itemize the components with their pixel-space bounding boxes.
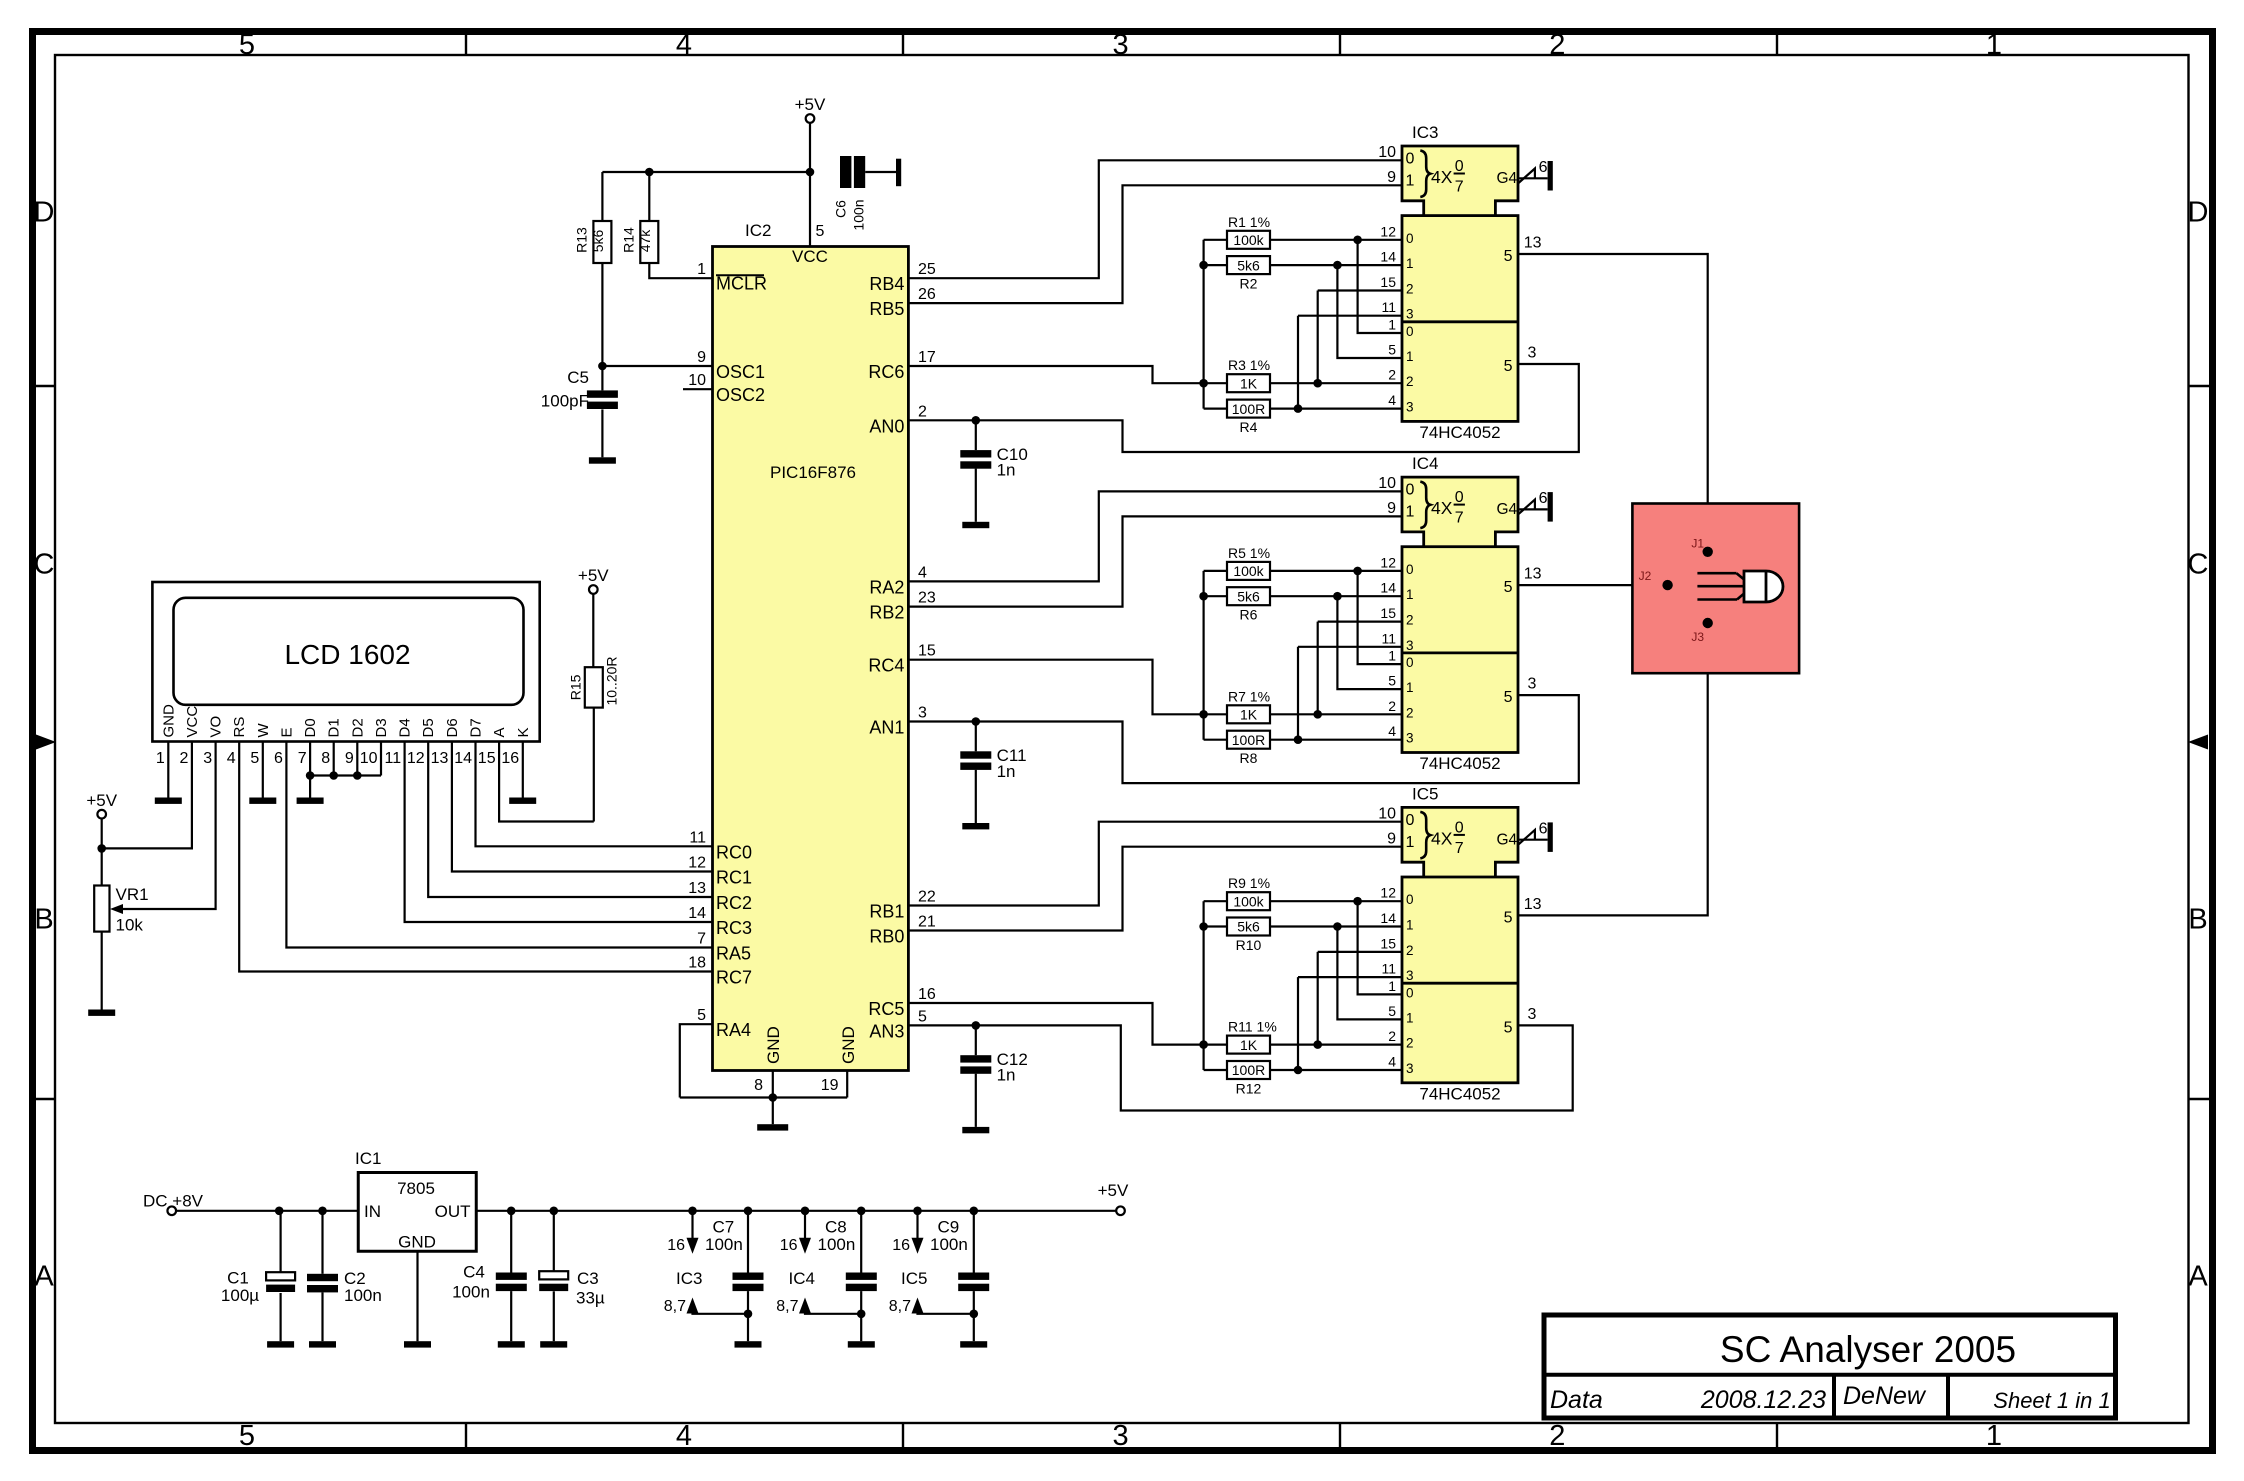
svg-text:OSC1: OSC1 (716, 362, 765, 382)
wire DC+8V to IC1 IN (176, 1210, 358, 1212)
wire C4 bottom (510, 1291, 512, 1341)
svg-text:2: 2 (1406, 1036, 1414, 1051)
svg-text:100n: 100n (850, 199, 866, 230)
svg-text:9: 9 (345, 750, 354, 767)
svg-text:0: 0 (1406, 985, 1414, 1000)
IC2 pin AN3 (5) (869, 1008, 927, 1041)
ground C2 (309, 1341, 336, 1347)
capacitor C10 plates (960, 450, 991, 469)
wire IC3 ch3a stub (1298, 315, 1402, 317)
wire VR1 bottom to ground (101, 932, 103, 1010)
svg-text:18: 18 (688, 955, 706, 972)
wire LCD pin2 VCC to +5V (102, 742, 192, 849)
IC2 pin OSC1 (9) (697, 349, 765, 382)
svg-text:16: 16 (667, 1237, 685, 1254)
svg-text:E: E (278, 727, 295, 737)
svg-text:2: 2 (1388, 1028, 1396, 1044)
ground VR1 (88, 1010, 115, 1016)
wire C5 to ground (601, 409, 603, 457)
junction R11 bus node (1199, 1040, 1208, 1049)
wire IC4 pin16 stub (804, 1211, 806, 1239)
svg-text:DeNew: DeNew (1843, 1382, 1927, 1410)
svg-text:C: C (34, 549, 55, 581)
wire IC5 8,7 to C9 (918, 1313, 974, 1314)
ground C6 (rotated bar) (896, 159, 901, 187)
svg-text:15: 15 (1380, 935, 1396, 951)
svg-text:0: 0 (1455, 819, 1464, 836)
ground C8 (848, 1341, 875, 1347)
wire RC6 to R3 bus (908, 366, 1203, 383)
wire R9 to IC5 ch0 (1270, 900, 1402, 902)
IC2 pin RB1 (22) (869, 889, 936, 922)
arrow from pins 8,7 of IC5 (912, 1298, 924, 1314)
svg-text:1: 1 (1986, 1420, 2002, 1452)
LCD display LCD1602 (152, 582, 539, 742)
frame tick bottom x=903 (902, 1423, 904, 1449)
junction C3 node (550, 1207, 559, 1216)
svg-text:14: 14 (454, 750, 472, 767)
svg-text:10..20R: 10..20R (604, 656, 620, 705)
IC4 channel 2 pin 2 (1388, 698, 1413, 721)
frame tick top x=903 (902, 33, 904, 55)
svg-text:C9: C9 (938, 1218, 960, 1237)
svg-text:C: C (2188, 549, 2209, 581)
svg-text:9: 9 (1387, 169, 1396, 186)
wire LCD pin4 RS to RC7 (239, 742, 712, 972)
IC4 channel 0 pin 12 (1380, 554, 1413, 577)
svg-text:7: 7 (1455, 840, 1464, 857)
capacitor C3 plates (electrolytic) (539, 1271, 568, 1291)
power +5V (IC2 VCC) (795, 95, 826, 123)
wire IC2 GND19 stub (846, 1071, 848, 1098)
svg-text:10: 10 (360, 750, 378, 767)
wire LCD pin5 W GND (262, 742, 264, 798)
svg-text:G4: G4 (1497, 170, 1518, 187)
svg-text:5: 5 (1504, 909, 1513, 926)
svg-text:RB2: RB2 (869, 603, 904, 623)
wire LCD D0-D3 tie (310, 774, 381, 776)
frame tick top x=1777 (1776, 33, 1778, 55)
frame tick right y=386 (2189, 385, 2211, 387)
wire C9 bottom (973, 1291, 975, 1314)
IC4 select pin 10 (1378, 475, 1414, 499)
svg-text:VCC: VCC (184, 706, 201, 738)
junction R3 bus node (1199, 379, 1208, 388)
wire C11 top (975, 722, 977, 752)
wire R8 cross to IC4 ch3a (1297, 647, 1299, 740)
IC2 pin RA5 (7) (697, 931, 751, 964)
wire RB4 to IC3 pin10 (908, 160, 1402, 278)
wire R4 cross to IC3 ch3a (1297, 316, 1299, 409)
svg-text:R11 1%: R11 1% (1228, 1019, 1277, 1035)
svg-text:1n: 1n (997, 762, 1016, 781)
wire R12 cross to IC5 ch3a (1297, 977, 1299, 1070)
svg-text:C1: C1 (227, 1269, 249, 1288)
potentiometer VR1 10k (94, 885, 148, 935)
svg-text:47k: 47k (637, 229, 653, 253)
svg-text:3: 3 (1406, 307, 1414, 322)
frame center arrow left (36, 735, 56, 750)
wire R5 to IC4 mux2 ch0 (1358, 571, 1402, 664)
IC3 brace and 4X 0/7 (1420, 151, 1465, 198)
junction C8 node (857, 1207, 866, 1216)
svg-text:GND: GND (398, 1233, 436, 1252)
svg-text:13: 13 (1524, 566, 1542, 583)
svg-text:5: 5 (1504, 1019, 1513, 1036)
resistor R6 (5k6) (1227, 587, 1270, 623)
svg-text:2: 2 (1388, 367, 1396, 383)
wire IC5 pin16 stub (916, 1211, 918, 1239)
IC3 channel 2 pin 2 (1388, 367, 1413, 390)
svg-text:0: 0 (1455, 158, 1464, 175)
svg-text:IC5: IC5 (1412, 784, 1438, 803)
svg-text:8: 8 (321, 750, 330, 767)
wire GND tie (680, 1096, 847, 1098)
frame tick left y=386 (33, 385, 55, 387)
wire R7 left (1204, 713, 1227, 715)
wire R10 to IC5 mux2 ch1 (1337, 927, 1402, 1020)
svg-text:RC5: RC5 (868, 999, 904, 1019)
svg-text:17: 17 (918, 349, 936, 366)
svg-text:5k6: 5k6 (1237, 257, 1260, 273)
svg-text:RA2: RA2 (869, 577, 904, 597)
ground LCD pin16 (509, 798, 536, 804)
IC3 mux output pin 3 (1504, 345, 1537, 376)
svg-text:7: 7 (298, 750, 307, 767)
wire R9 to IC5 mux2 ch0 (1358, 901, 1402, 994)
transistor symbol (TO-92 DUT) (1697, 571, 1783, 602)
wire IC4 ch3a stub (1298, 646, 1402, 648)
svg-text:0: 0 (1406, 482, 1415, 499)
wire C7 top (747, 1211, 749, 1273)
wire C10 bottom (975, 469, 977, 522)
svg-text:5k6: 5k6 (1237, 588, 1260, 604)
svg-text:4: 4 (1388, 723, 1396, 739)
IC2 pin OSC2 (10) (688, 372, 765, 405)
wire R10 to IC5 ch1 (1270, 925, 1402, 927)
wire IC5 ch2a stub (1318, 951, 1402, 953)
resistor R8 (100R) (1227, 731, 1270, 767)
svg-text:8,7: 8,7 (889, 1298, 911, 1315)
IC4 mux output pin 13 (1504, 566, 1542, 597)
svg-text:1: 1 (1388, 978, 1396, 994)
svg-text:12: 12 (688, 855, 706, 872)
svg-text:J1: J1 (1691, 537, 1704, 551)
IC4 enable G4 pin 6 (1497, 490, 1548, 518)
svg-text:2: 2 (1549, 1420, 1565, 1452)
svg-text:5: 5 (239, 29, 255, 61)
junction D1 tie (329, 771, 338, 780)
svg-text:9: 9 (1387, 830, 1396, 847)
svg-text:5: 5 (239, 1420, 255, 1452)
svg-text:16: 16 (892, 1237, 910, 1254)
svg-text:2: 2 (918, 403, 927, 420)
junction C8 arrow node (801, 1207, 810, 1216)
junction D0 tie (306, 771, 315, 780)
wire C11 bottom (975, 770, 977, 823)
IC2 pin RC0 (11) (689, 829, 752, 862)
capacitor C5 plates (587, 390, 618, 409)
junction R11 out node (1313, 1040, 1322, 1049)
wire R6 to IC4 mux2 ch1 (1337, 596, 1402, 689)
IC2 pin RC2 (13) (688, 880, 752, 913)
svg-text:100n: 100n (930, 1235, 968, 1254)
svg-text:1: 1 (1406, 587, 1414, 602)
svg-text:4X: 4X (1431, 167, 1453, 187)
svg-text:0: 0 (1406, 151, 1415, 168)
svg-text:R15: R15 (568, 674, 584, 700)
DUT socket (transistor under test) (1632, 504, 1799, 674)
svg-text:RC2: RC2 (716, 893, 752, 913)
wire LCD pin9 D2 stub (356, 742, 358, 776)
wire IC1 GND (416, 1251, 418, 1341)
svg-text:D3: D3 (373, 718, 390, 737)
svg-text:0: 0 (1406, 655, 1414, 670)
svg-text:C6: C6 (833, 200, 849, 218)
IC3 channel 1 pin 5 (1388, 342, 1413, 365)
svg-text:3: 3 (1113, 1420, 1129, 1452)
wire IC3 pin16 stub (691, 1211, 693, 1239)
wire LCD pin3 VO to VR1 wiper (121, 742, 216, 910)
svg-text:1: 1 (1406, 173, 1415, 190)
svg-text:+5V: +5V (86, 791, 117, 810)
junction R8 out node (1294, 735, 1303, 744)
svg-text:11: 11 (384, 750, 401, 767)
junction R9 out node (1353, 897, 1362, 906)
svg-text:4X: 4X (1431, 828, 1453, 848)
IC4 channel 0 pin 1 (1388, 648, 1413, 671)
svg-text:RS: RS (231, 717, 248, 738)
IC3 channel 0 pin 12 (1380, 223, 1413, 246)
svg-text:6: 6 (1539, 159, 1548, 176)
wire R4 to IC3 ch3b (1270, 408, 1402, 410)
svg-text:C4: C4 (463, 1263, 485, 1282)
wire R12 left (1204, 1069, 1227, 1071)
IC5 channel 2 pin 15 (1380, 935, 1413, 958)
wire OSC1 wire (602, 365, 712, 367)
wire R10 left (1204, 925, 1227, 927)
IC4 channel 3 pin 4 (1388, 723, 1413, 746)
wire R2 to IC3 mux2 ch1 (1337, 265, 1402, 358)
svg-text:A: A (2188, 1261, 2208, 1293)
resistor R1 (100k) (1227, 214, 1270, 249)
svg-text:100pF: 100pF (541, 392, 589, 411)
wire R6 left (1204, 595, 1227, 597)
junction +5V/VCC node (97, 844, 106, 853)
IC3 channel 2 pin 15 (1380, 274, 1413, 297)
svg-text:5: 5 (1504, 579, 1513, 596)
wire RA2 to IC4 pin10 (908, 491, 1402, 581)
svg-text:IC5: IC5 (901, 1269, 927, 1288)
wire C8 to gnd (860, 1314, 862, 1341)
wire R6 to IC4 ch1 (1270, 595, 1402, 597)
svg-text:12: 12 (407, 750, 425, 767)
svg-text:100R: 100R (1232, 732, 1265, 748)
wire C9 top (973, 1211, 975, 1273)
wire +5V to IC2 VCC (809, 123, 811, 247)
svg-text:8,7: 8,7 (776, 1298, 798, 1315)
arrow from pins 8,7 of IC4 (799, 1298, 811, 1314)
svg-text:RC6: RC6 (868, 362, 904, 382)
IC2 pin RB0 (21) (869, 914, 936, 947)
svg-text:7: 7 (1455, 510, 1464, 527)
svg-text:15: 15 (918, 643, 936, 660)
svg-text:74HC4052: 74HC4052 (1419, 423, 1500, 442)
svg-text:10k: 10k (116, 916, 144, 935)
ground LCD pin1 (155, 798, 182, 804)
svg-text:0: 0 (1406, 812, 1415, 829)
svg-text:100n: 100n (818, 1235, 856, 1254)
svg-text:IN: IN (364, 1202, 381, 1221)
svg-text:5k6: 5k6 (590, 230, 606, 253)
wire C1 bottom (280, 1293, 282, 1341)
svg-text:9: 9 (1387, 500, 1396, 517)
svg-text:VO: VO (208, 716, 225, 738)
svg-text:AN3: AN3 (869, 1021, 904, 1041)
IC3 enable G4 pin 6 (1497, 159, 1548, 187)
svg-text:IC4: IC4 (789, 1269, 815, 1288)
svg-text:1: 1 (1406, 918, 1414, 933)
resistor R9 (100k) (1227, 875, 1270, 910)
wire LCD pin10 D3 stub (380, 742, 382, 776)
IC5 channel 0 pin 1 (1388, 978, 1413, 1001)
svg-text:12: 12 (1380, 554, 1396, 570)
svg-text:C7: C7 (713, 1218, 735, 1237)
junction C8 gnd node (857, 1310, 866, 1319)
svg-text:6: 6 (1539, 490, 1548, 507)
junction R10 out node (1333, 922, 1342, 931)
junction C9 node (970, 1207, 979, 1216)
svg-text:1: 1 (1406, 504, 1415, 521)
IC2 pin RB4 (25) (869, 261, 936, 294)
ground IC4 pin 6 (rotated bar) (1548, 492, 1553, 521)
IC4 mux output pin 3 (1504, 676, 1537, 707)
svg-text:+5V: +5V (578, 566, 609, 585)
svg-text:G4: G4 (1497, 501, 1518, 518)
svg-text:R12: R12 (1236, 1081, 1262, 1097)
resistor R10 (5k6) (1227, 918, 1270, 954)
IC5 channel 0 pin 12 (1380, 885, 1413, 908)
wire IC4 ch2a stub (1318, 620, 1402, 622)
svg-text:100n: 100n (452, 1283, 490, 1302)
IC2 pin RB5 (26) (869, 286, 936, 319)
wire RB5 to IC3 pin9 (908, 185, 1402, 303)
wire LCD pin6 E to RA5 (286, 742, 712, 948)
IC5 channel 3 pin 11 (1381, 961, 1413, 984)
junction R12 out node (1294, 1066, 1303, 1075)
svg-text:4: 4 (227, 750, 236, 767)
svg-text:R6: R6 (1240, 607, 1258, 623)
svg-text:6: 6 (1539, 820, 1548, 837)
junction VCC rail node (806, 168, 815, 177)
svg-text:3: 3 (1528, 345, 1537, 362)
frame center arrow right (2188, 735, 2208, 750)
svg-text:3: 3 (1406, 731, 1414, 746)
wire LCD pin14 D7 to RC0 (476, 742, 713, 847)
svg-text:D1: D1 (326, 718, 343, 737)
junction C9 gnd node (970, 1310, 979, 1319)
wire C12 bottom (975, 1074, 977, 1127)
resistor R3 (1K) (1227, 357, 1270, 392)
svg-text:D7: D7 (468, 718, 485, 737)
IC5 channel 2 pin 2 (1388, 1028, 1413, 1051)
svg-text:100n: 100n (705, 1235, 743, 1254)
svg-text:RC1: RC1 (716, 868, 752, 888)
svg-text:1K: 1K (1240, 707, 1258, 723)
resistor R15 (10..20R) (568, 656, 620, 707)
frame tick left y=1099 (33, 1098, 55, 1100)
wire RA4 to GND (680, 1024, 713, 1097)
junction R2 out node (1333, 261, 1342, 270)
svg-text:D: D (2188, 197, 2209, 229)
svg-text:1: 1 (1406, 680, 1414, 695)
svg-text:J2: J2 (1639, 569, 1652, 583)
IC4 channel 1 pin 14 (1380, 580, 1413, 603)
wire LCD pin7 D0 to GND (309, 742, 311, 798)
svg-text:D: D (34, 197, 55, 229)
IC U2: PIC16F876 (IC2) (713, 247, 909, 1071)
svg-text:RB0: RB0 (869, 927, 904, 947)
svg-text:D2: D2 (349, 718, 366, 737)
junction R4 out node (1294, 404, 1303, 413)
svg-text:A: A (491, 727, 508, 737)
svg-text:2: 2 (1549, 29, 1565, 61)
svg-text:1: 1 (1388, 648, 1396, 664)
IC3 channel 0 pin 1 (1388, 317, 1413, 340)
frame tick bottom x=1340 (1339, 1423, 1341, 1449)
junction C7 arrow node (688, 1207, 697, 1216)
svg-text:RC0: RC0 (716, 842, 752, 862)
wire AN0 to IC3 out2 (908, 364, 1578, 452)
svg-text:9: 9 (697, 349, 706, 366)
svg-text:RA4: RA4 (716, 1020, 751, 1040)
junction C4 node (507, 1207, 516, 1216)
wire R14 top (648, 172, 650, 221)
wire IC2 GND8 stub (772, 1071, 774, 1098)
svg-text:Data: Data (1550, 1386, 1603, 1414)
svg-text:4X: 4X (1431, 498, 1453, 518)
svg-text:K: K (515, 727, 532, 737)
junction C7 gnd node (744, 1310, 753, 1319)
svg-text:OUT: OUT (435, 1202, 471, 1221)
svg-text:0: 0 (1406, 892, 1414, 907)
IC IC5: 74HC4052 analog multiplexer (1402, 807, 1518, 1082)
wire IC3 8,7 to C7 (693, 1313, 749, 1314)
svg-text:IC4: IC4 (1412, 454, 1438, 473)
wire IC5 resistor bus (1202, 901, 1204, 1070)
svg-text:OSC2: OSC2 (716, 385, 765, 405)
frame tick right y=1099 (2189, 1098, 2211, 1100)
svg-text:1n: 1n (997, 461, 1016, 480)
capacitor C12 plates (960, 1055, 991, 1074)
IC2 pin MCLR (1) (697, 261, 767, 294)
svg-text:D4: D4 (397, 718, 414, 737)
svg-text:R3 1%: R3 1% (1228, 357, 1270, 373)
IC2 pin RC4 (15) (868, 643, 936, 676)
IC2 pin RC5 (16) (868, 986, 936, 1019)
ground LCD pin7 (297, 798, 324, 804)
wire R11 cross to IC5 ch2a (1317, 952, 1319, 1045)
junction C7 node (744, 1207, 753, 1216)
svg-text:0: 0 (1406, 231, 1414, 246)
wire R7 cross to IC4 ch2a (1317, 622, 1319, 715)
svg-text:3: 3 (203, 750, 212, 767)
svg-text:R1 1%: R1 1% (1228, 214, 1270, 230)
wire R2 to IC3 ch1 (1270, 264, 1402, 266)
junction R2 bus node (1199, 261, 1208, 270)
wire R9 left (1204, 900, 1227, 902)
wire C12 top (975, 1025, 977, 1055)
